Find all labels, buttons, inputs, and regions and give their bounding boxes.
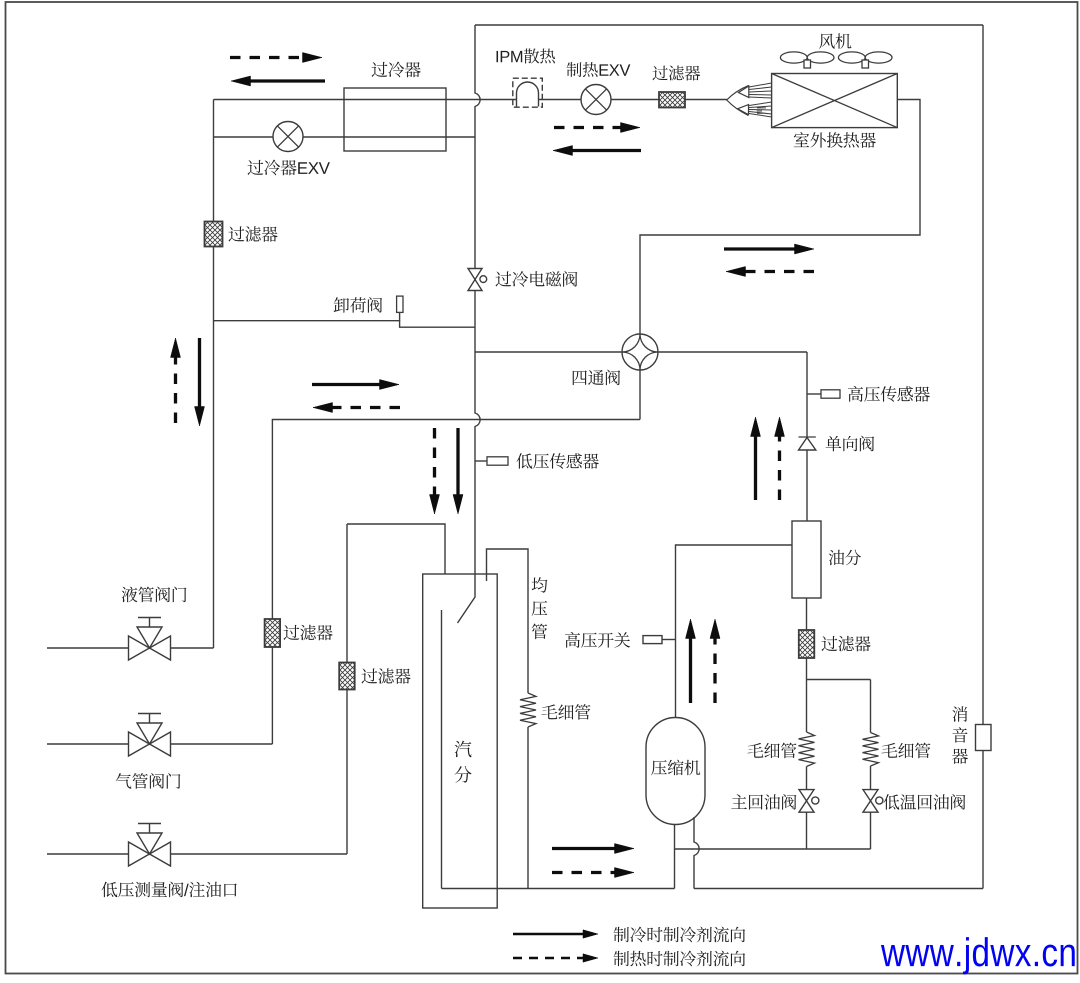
label 毛细管 equalizer — [542, 704, 591, 720]
wire: discharge line compressor to oil separator — [676, 545, 793, 718]
liquid pipe valve 液管阀门 — [129, 636, 150, 660]
filter (top) 过滤器 — [659, 92, 685, 108]
label 油分 — [829, 550, 861, 566]
low pressure sensor stub — [475, 460, 487, 462]
air spray lower arrowhead — [738, 105, 749, 115]
flow arrow dashed right (after heating EXV) — [554, 126, 622, 129]
flow arrow solid up (compressor discharge) — [689, 638, 692, 704]
outdoor heat exchanger box 室外换热器 — [772, 74, 898, 128]
wire: branch top header y=679.5 — [807, 679, 871, 681]
wire: compressor bottom right stub with hop over oil line — [694, 817, 699, 889]
label 低压测量阀/注油口 — [102, 882, 237, 898]
capillary (main oil return) 毛细管 — [799, 732, 815, 767]
label 毛细管 left branch — [748, 743, 797, 759]
legend label 制热时制冷剂流向 — [614, 951, 746, 967]
label 低压传感器 — [517, 453, 599, 469]
flow arrow dashed right (suction bottom) — [552, 871, 616, 874]
wire: right branch down to capillary — [870, 680, 872, 733]
flow arrow dashed up (compressor discharge) — [713, 638, 716, 704]
wire: four-way valve bottom port — [639, 370, 641, 420]
compressor 压缩机 — [646, 718, 705, 825]
equalizing pipe 均压管 — [487, 549, 529, 693]
gas-liquid separator 汽分 — [423, 574, 498, 908]
wire: capillary to low temp oil return valve — [870, 766, 872, 790]
unloading valve 卸荷阀 line y=320.7 with jog — [214, 321, 476, 328]
label 过冷电磁阀 — [495, 271, 577, 287]
low temperature oil return valve 低温回油阀 — [863, 790, 878, 801]
label 气管阀门 — [116, 773, 181, 789]
flow arrow solid left (after heating EXV) — [572, 149, 642, 152]
oil separator 油分 — [792, 521, 821, 598]
wire: four-way valve right port to right header — [658, 351, 807, 353]
low pressure measuring valve pipe — [47, 853, 347, 855]
filter on gas riser 过滤器 — [265, 619, 281, 647]
outdoor heat exchanger X diagonals — [772, 74, 898, 128]
wire: subcooler branch pipe y=137 — [214, 136, 476, 138]
wire: suction line from separator to compressor — [442, 888, 675, 890]
fan 2 hub — [862, 60, 869, 68]
filter on inlet loop 过滤器 — [339, 663, 355, 690]
label 高压传感器 — [848, 386, 930, 402]
main oil return valve 主回油阀 — [799, 790, 814, 801]
flow arrow solid right (suction header) — [312, 383, 381, 386]
label 过冷器 — [372, 62, 421, 78]
label 四通阀 — [573, 370, 620, 386]
label 低温回油阀 — [884, 794, 966, 810]
flow arrow solid down (into separator) — [456, 428, 459, 496]
label 毛细管 right branch — [882, 743, 931, 759]
fan label 风机 — [819, 33, 851, 49]
low pressure sensor 低压传感器 — [487, 457, 508, 465]
wire: right header down to check valve — [806, 352, 808, 437]
legend label 制冷时制冷剂流向 — [614, 927, 746, 943]
wire: liquid pipe from left riser to IPM left leg — [214, 99, 517, 101]
wire: compressor bottom left stub to suction line — [674, 825, 676, 889]
wire: gas inlet loop to separator top — [346, 689, 348, 854]
wire: HX right to down-run — [640, 100, 920, 335]
label 单向阀 — [826, 436, 875, 452]
flow arrow solid left (top left) — [250, 79, 326, 82]
legend dashed arrow — [513, 957, 584, 959]
left liquid riser x=213.5 — [213, 100, 215, 649]
muffler 消音器 — [976, 725, 992, 751]
four-way valve 四通阀 — [622, 334, 658, 370]
legend solid arrow — [513, 933, 584, 935]
IPM cooler dashed box — [513, 78, 543, 107]
high pressure sensor 高压传感器 — [821, 390, 840, 398]
label 主回油阀 — [731, 794, 796, 810]
flow arrow dashed up (to check valve) — [778, 436, 781, 501]
label 高压开关 — [565, 632, 630, 648]
capillary (low temp oil return) 毛细管 — [863, 733, 879, 767]
filter on liquid riser 过滤器 — [205, 222, 223, 247]
flow arrow dashed left (HX outlet) — [745, 270, 815, 273]
subcooler box 过冷器 — [344, 88, 446, 151]
wire: oil return line y=849 from compressor stub to right branch — [675, 848, 871, 850]
wire: low temp valve down to oil line corner — [870, 812, 872, 849]
outdoor unit right boundary / muffler pipe upper segment — [982, 25, 984, 725]
watermark www.jdwx.cn — [881, 937, 1075, 974]
wire: four-way valve left port to main line — [475, 351, 622, 353]
flow arrow dashed left (suction header) — [332, 406, 401, 409]
label 过滤器 liquid riser — [228, 226, 277, 242]
wire: capillary to main oil return valve — [806, 767, 808, 790]
unloading valve body — [397, 296, 403, 312]
flow arrow solid up (to check valve) — [754, 436, 757, 501]
label 过冷器EXV — [247, 160, 329, 176]
flow arrow solid right (suction bottom) — [552, 847, 616, 850]
wire: filter to branch split — [806, 658, 808, 732]
high pressure switch stub — [662, 639, 676, 641]
fan 1 hub — [804, 60, 811, 68]
label 液管阀门 — [122, 587, 187, 603]
low pressure measuring valve 低压测量阀/注油口 — [129, 842, 150, 866]
IPM cooler arch pipe — [517, 82, 539, 106]
fan 2 blades — [838, 52, 865, 63]
gas service valve pipe — [47, 743, 272, 745]
heating EXV valve 制热EXV — [581, 85, 611, 115]
flow arrow dashed up (left riser) — [174, 357, 177, 424]
unloading valve stem — [399, 312, 401, 320]
liquid service valve pipe — [47, 647, 214, 649]
wire: check valve to oil separator — [806, 450, 808, 521]
air spray stream lines — [749, 83, 772, 117]
subcool solenoid valve 过冷电磁阀 — [468, 269, 482, 280]
label 过滤器 oil line — [821, 636, 870, 652]
label 压缩机 — [651, 760, 700, 776]
label 过滤器 inlet loop — [361, 668, 410, 684]
wire: liquid pipe from IPM right leg to air spray apex — [539, 99, 728, 101]
outdoor unit top boundary line — [475, 24, 983, 26]
wire: bottom line compressor to right boundary — [694, 888, 983, 890]
subcooler EXV valve 过冷器EXV — [273, 122, 303, 152]
air spray symbol left of HX — [727, 85, 749, 115]
flow arrow dashed down (into separator) — [433, 428, 436, 496]
flow arrow dashed right (top left) — [230, 56, 304, 59]
gas pipe valve 气管阀门 — [129, 732, 150, 756]
label 过滤器 top — [652, 65, 700, 80]
label 制热EXV — [567, 62, 631, 77]
equalizing pipe capillary 毛细管 — [520, 693, 536, 727]
flow arrow solid down (left riser) — [198, 338, 201, 408]
wire: right boundary lower segment to muffler — [982, 751, 984, 889]
high pressure sensor stub — [807, 393, 821, 395]
label 消音器 vertical — [952, 706, 968, 764]
fan 1 blades — [780, 52, 807, 63]
high pressure switch 高压开关 — [643, 636, 662, 644]
wire: oil separator bottom to filter — [806, 598, 808, 630]
separator internal suction pipe — [441, 610, 443, 889]
flow arrow solid right (HX outlet) — [724, 247, 796, 250]
label 均压管 vertical — [532, 577, 548, 639]
main vertical line x=475 with hops at y=99.5 and y=419.5, down into separator — [458, 25, 481, 623]
label 汽分 vertical — [455, 741, 472, 783]
filter (oil line) 过滤器 — [799, 630, 815, 658]
air spray upper arrowhead — [739, 86, 749, 98]
label 过滤器 gas riser — [283, 625, 332, 641]
check valve 单向阀 — [799, 436, 816, 438]
label IPM散热 — [497, 48, 556, 63]
label 卸荷阀 — [334, 297, 383, 313]
wire: equalizing pipe lower run — [527, 727, 529, 889]
wire: main oil return valve to oil line — [806, 812, 808, 849]
label 室外换热器 — [794, 132, 876, 148]
wire: suction header y=419.5 with corner down to gas-side riser — [272, 420, 640, 745]
